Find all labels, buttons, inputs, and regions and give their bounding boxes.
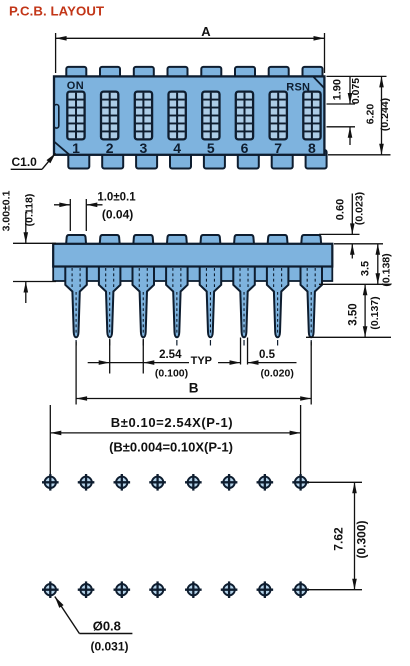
svg-text:ON: ON [67, 80, 84, 92]
top view: rocker actuator 5 [202, 92, 219, 140]
svg-text:(0.244): (0.244) [379, 98, 391, 131]
dimension 1.0±0.1 / (0.04) [54, 191, 136, 231]
pcb pad row1 #2 [78, 474, 95, 491]
svg-text:(0.138): (0.138) [381, 253, 393, 286]
side view: lower body strip [53, 244, 332, 281]
svg-text:6: 6 [241, 140, 249, 156]
side view: actuator bump 8 [301, 235, 321, 245]
side view: pin 1 with shoulder [65, 267, 87, 346]
dimension 3.50 / (0.137) [306, 284, 391, 337]
svg-text:(0.118): (0.118) [24, 194, 36, 227]
top view: ON marking [67, 80, 84, 92]
top view: rocker actuator 6 [236, 92, 253, 140]
dimension B (pin span) [76, 342, 311, 405]
dimension 0.60 / (0.023) [319, 192, 366, 259]
svg-text:3.00±0.1: 3.00±0.1 [1, 190, 13, 231]
top view: position numbers 1-8 [72, 140, 316, 156]
side view: actuator bump 1 [66, 235, 86, 245]
dimension 6.20 / (0.244) [365, 76, 392, 154]
top view: rocker actuator 7 [270, 92, 287, 140]
dimension 3.5 / (0.138) [319, 244, 393, 287]
svg-text:(0.023): (0.023) [354, 192, 366, 225]
pcb pad row2 #6 [221, 581, 238, 598]
svg-text:B±0.10=2.54X(P-1): B±0.10=2.54X(P-1) [111, 415, 233, 430]
top view: rocker actuator 1 [67, 92, 84, 140]
svg-text:(0.04): (0.04) [102, 208, 133, 222]
svg-text:RSN: RSN [286, 82, 310, 94]
side view: actuator bump 3 [133, 235, 153, 245]
svg-text:1.0±0.1: 1.0±0.1 [97, 191, 136, 203]
svg-text:3.5: 3.5 [360, 261, 372, 276]
svg-text:(0.031): (0.031) [90, 640, 128, 654]
pcb pad row1 #6 [221, 474, 238, 491]
top view: rocker actuator 3 [135, 92, 152, 140]
dimension 1.90 / 0.075 [331, 76, 362, 145]
side view: pin 6 with shoulder [233, 267, 255, 346]
dimension 2.54 TYP / (0.100) [88, 339, 212, 380]
top view: top-right corner mark [313, 76, 324, 88]
side view: pin 8 with shoulder [301, 267, 323, 346]
dimension B±0.10=2.54X(P-1) [50, 405, 300, 475]
svg-text:2: 2 [106, 140, 114, 156]
svg-text:7.62: 7.62 [332, 527, 346, 551]
pcb pad row1 #3 [114, 474, 131, 491]
svg-text:A: A [201, 24, 211, 39]
title P.C.B. LAYOUT [9, 3, 104, 18]
top view: 8 top mounting tabs [66, 67, 322, 79]
pcb pad row1 #4 [149, 474, 166, 491]
dimension Ø0.8 / (0.031) hole diameter [55, 597, 133, 654]
dimension A (overall width) [56, 24, 325, 73]
top view: rocker actuator 2 [101, 92, 118, 140]
pcb pad row2 #4 [149, 581, 166, 598]
svg-text:(0.137): (0.137) [369, 296, 381, 329]
top view: 8 bottom mounting tabs [68, 150, 326, 169]
svg-text:1: 1 [72, 140, 80, 156]
dimension 0.5 / (0.020) [218, 338, 296, 380]
pcb pad row1 #1 [42, 474, 59, 491]
side view: pin 3 with shoulder [133, 267, 155, 346]
svg-text:3: 3 [140, 140, 148, 156]
side view: actuator bump 5 [200, 235, 220, 245]
pcb pad row2 #3 [114, 581, 131, 598]
pcb pad row1 #8 [292, 474, 309, 491]
svg-text:P.C.B. LAYOUT: P.C.B. LAYOUT [9, 3, 104, 18]
side view: actuator bump 4 [167, 235, 187, 245]
svg-text:0.075: 0.075 [350, 78, 362, 104]
svg-text:(0.300): (0.300) [354, 520, 368, 558]
side view: switch body [53, 244, 332, 267]
side view: actuator bump 7 [268, 235, 288, 245]
svg-text:(0.020): (0.020) [261, 368, 294, 380]
svg-text:(0.100): (0.100) [155, 368, 188, 380]
pcb pad row2 #8 [292, 581, 309, 598]
pcb pad row2 #2 [78, 581, 95, 598]
side view: pin 5 with shoulder [200, 267, 222, 346]
svg-text:2.54: 2.54 [159, 349, 182, 361]
svg-text:0.60: 0.60 [335, 199, 347, 220]
side view: actuator bump 2 [100, 235, 120, 245]
dimension C1.0 chamfer callout [11, 153, 56, 169]
svg-text:0.5: 0.5 [259, 349, 276, 361]
pcb pad row1 #7 [257, 474, 274, 491]
pcb pad row1 #5 [185, 474, 202, 491]
top view: extension lines right [327, 76, 391, 154]
top view: pin1 chamfer mark [54, 142, 70, 155]
side view: pin 4 with shoulder [166, 267, 188, 346]
side view: pin 2 with shoulder [99, 267, 121, 346]
top view: switch body [54, 76, 324, 154]
svg-text:5: 5 [207, 140, 215, 156]
dimension 7.62 / (0.300) [307, 482, 368, 589]
svg-text:C1.0: C1.0 [12, 155, 38, 169]
top view: RSN marking [286, 82, 310, 94]
side view: actuator bump 6 [234, 235, 254, 245]
top view: rocker actuator 8 [303, 92, 320, 140]
svg-text:8: 8 [308, 140, 316, 156]
svg-text:7: 7 [274, 140, 282, 156]
side view: pin 7 with shoulder [267, 267, 289, 346]
svg-text:Ø0.8: Ø0.8 [93, 619, 121, 634]
top view: left edge slot [54, 105, 59, 129]
pcb pad row2 #1 [42, 581, 59, 598]
svg-text:(B±0.004=0.10X(P-1): (B±0.004=0.10X(P-1) [109, 440, 233, 455]
pcb pad row2 #7 [257, 581, 274, 598]
top view: rocker actuator 4 [169, 92, 186, 140]
svg-text:3.50: 3.50 [348, 303, 360, 325]
dimension 3.00±0.1 / (0.118) [1, 190, 57, 303]
svg-text:TYP: TYP [191, 355, 212, 367]
svg-text:B: B [189, 381, 199, 396]
svg-text:1.90: 1.90 [331, 79, 343, 100]
pcb pad row2 #5 [185, 581, 202, 598]
svg-text:6.20: 6.20 [365, 104, 377, 125]
svg-text:4: 4 [173, 140, 181, 156]
